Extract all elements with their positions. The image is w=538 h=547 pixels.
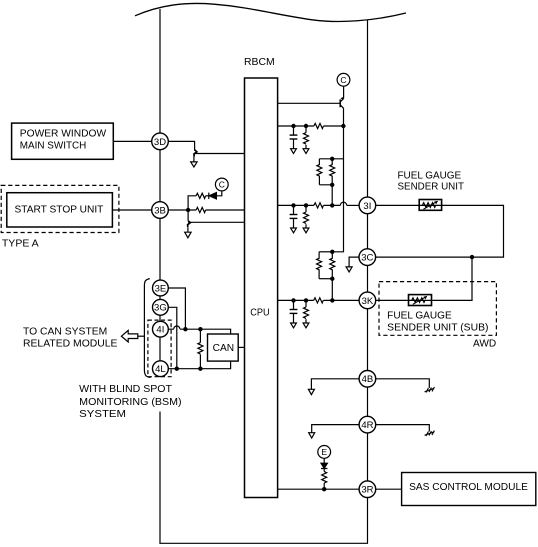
connector 3G bbox=[153, 299, 169, 315]
label: white backing for BSM text bbox=[78, 380, 184, 408]
dashed box: TYPE A bbox=[1, 185, 119, 232]
wire: 3B to junction bbox=[168, 209, 196, 211]
resistor right lower block bbox=[330, 252, 335, 279]
wire: CPU row A bbox=[278, 125, 314, 127]
connector 4I bbox=[153, 321, 169, 337]
wire: power window switch to 3D bbox=[113, 140, 151, 142]
svg-text:MONITORING (BSM): MONITORING (BSM) bbox=[79, 397, 181, 408]
svg-text:3E: 3E bbox=[155, 283, 167, 294]
svg-text:FUEL GAUGE: FUEL GAUGE bbox=[387, 310, 452, 321]
wire: 4B row left bbox=[311, 379, 359, 390]
connector 4B bbox=[359, 371, 376, 388]
resistor R-A to ground bbox=[305, 126, 307, 133]
svg-text:3B: 3B bbox=[154, 205, 166, 216]
diode on C branch bbox=[206, 195, 209, 197]
capacitor C-C bbox=[293, 300, 295, 309]
wire: CPU row 3R bbox=[278, 488, 360, 490]
wire: upper block bottom bbox=[319, 185, 332, 206]
break arrow 4B left bbox=[308, 389, 314, 394]
wire: 4B row right bbox=[376, 379, 430, 388]
fuel gauge sender unit resistor box bbox=[419, 200, 441, 211]
resistor R-C to ground bbox=[305, 300, 307, 307]
dashed box: BSM connectors bbox=[148, 320, 171, 377]
svg-text:4L: 4L bbox=[155, 364, 166, 375]
svg-text:3I: 3I bbox=[363, 201, 371, 212]
resistor on C branch bbox=[196, 193, 205, 198]
capacitor C-B bbox=[293, 205, 295, 214]
circle E bbox=[318, 446, 331, 459]
wire: 4R row left bbox=[312, 425, 360, 433]
box: CAN bbox=[208, 334, 239, 361]
svg-text:C: C bbox=[340, 75, 346, 85]
CAN terminator resistor bbox=[199, 329, 201, 342]
box: SAS CONTROL MODULE bbox=[402, 473, 536, 506]
resistor right upper block bbox=[330, 159, 335, 185]
resistor on 3B row bbox=[196, 207, 205, 212]
parallel resistor block lower: top wire bbox=[319, 251, 332, 253]
wire: right harness bus bbox=[367, 20, 369, 544]
break arrow below 3B lower branch bbox=[188, 221, 191, 227]
wire: sender loop to sub sender bbox=[432, 257, 473, 300]
connector group bracket bbox=[144, 279, 150, 378]
wire: junction up to C branch bbox=[188, 196, 196, 210]
wire: collector to circle C bbox=[343, 86, 345, 98]
wire: left harness bus upper bbox=[159, 9, 161, 377]
wire: sender loop right side bbox=[376, 205, 504, 257]
wire: 4I row to CAN bbox=[169, 328, 174, 330]
diode on E branch bbox=[321, 468, 327, 470]
junction dots bbox=[186, 208, 190, 212]
svg-text:SENDER UNIT (SUB): SENDER UNIT (SUB) bbox=[387, 323, 488, 334]
break arrow 4R left bbox=[309, 433, 315, 438]
svg-text:4R: 4R bbox=[361, 420, 373, 431]
parallel resistor block upper: top wire bbox=[319, 158, 343, 160]
connector 3B bbox=[152, 202, 169, 219]
wire: lower block to 3K row bbox=[331, 279, 333, 301]
svg-text:SAS CONTROL MODULE: SAS CONTROL MODULE bbox=[409, 482, 528, 493]
wire hop over emitter bus on 3I row bbox=[340, 202, 346, 205]
svg-text:4B: 4B bbox=[362, 374, 374, 385]
box: POWER WINDOW MAIN SWITCH bbox=[12, 123, 114, 159]
box: RBCM CPU bbox=[245, 78, 278, 498]
wire: lower 3B branch into RBCM bbox=[188, 221, 244, 223]
svg-text:CAN: CAN bbox=[213, 343, 235, 354]
connector 3I bbox=[359, 197, 376, 214]
resistor on 3I row bbox=[314, 203, 323, 208]
wire: 3G to 4L row bbox=[169, 307, 177, 368]
connector 3R bbox=[359, 481, 376, 498]
wire hop on 4I row bbox=[174, 326, 180, 329]
block arrow: to CAN system related module bbox=[121, 330, 137, 342]
svg-text:CPU: CPU bbox=[250, 308, 269, 319]
svg-text:WITH BLIND SPOT: WITH BLIND SPOT bbox=[79, 384, 172, 395]
wire: 3D branch into RBCM bbox=[195, 153, 245, 155]
box: START STOP UNIT bbox=[7, 193, 113, 227]
chassis ground 4R bbox=[425, 431, 435, 437]
connector 4R bbox=[359, 416, 376, 433]
circle C mid bbox=[215, 178, 228, 191]
wire: bottom bus bbox=[159, 542, 368, 544]
dashed box: fuel gauge sender unit (sub) AWD bbox=[379, 282, 496, 336]
svg-text:TYPE A: TYPE A bbox=[2, 238, 39, 249]
wire: 3C to break arrow bbox=[349, 257, 359, 267]
resistor R-B to ground bbox=[305, 205, 307, 212]
wire: emitter bus down to 3C block bbox=[332, 108, 343, 251]
resistor left lower block bbox=[317, 252, 322, 279]
wire: 3B junction down branch bbox=[187, 210, 189, 221]
wire: CAN to CPU stub bbox=[238, 346, 244, 348]
fuel gauge sender unit (sub) resistor box bbox=[409, 295, 432, 306]
tick: bracket to block arrow bbox=[138, 335, 145, 337]
wire: 3R to SAS control module bbox=[376, 488, 402, 490]
wire: CPU row 3I bbox=[278, 204, 314, 206]
wire: left harness bus lower bbox=[159, 412, 161, 544]
wire: diode to circle C bbox=[216, 191, 221, 196]
chassis ground 4B bbox=[425, 387, 435, 393]
svg-text:4I: 4I bbox=[156, 325, 164, 336]
svg-text:3D: 3D bbox=[154, 137, 166, 148]
resistor on row A bbox=[314, 123, 323, 128]
svg-text:FUEL GAUGE: FUEL GAUGE bbox=[398, 171, 462, 182]
connector 3C bbox=[359, 249, 376, 266]
torn-edge wavy line bbox=[135, 3, 406, 21]
wire: CPU row 3K bbox=[278, 299, 314, 301]
wire: 4L row to CAN bbox=[169, 361, 231, 369]
wire: 3D to RBCM corner bbox=[168, 141, 194, 150]
connector 3K bbox=[359, 292, 376, 309]
wire: 3I to fuel gauge sender bbox=[376, 204, 420, 206]
wire: resistor to RBCM on 3B row bbox=[206, 209, 245, 211]
svg-text:C: C bbox=[219, 180, 225, 190]
wire: start stop unit to 3B bbox=[112, 209, 151, 211]
break arrow below 3D branch bbox=[194, 150, 197, 157]
connector 3D bbox=[152, 133, 169, 150]
svg-text:MAIN SWITCH: MAIN SWITCH bbox=[20, 141, 87, 152]
svg-text:AWD: AWD bbox=[473, 339, 496, 350]
resistor on E branch bbox=[323, 483, 325, 489]
svg-text:START STOP UNIT: START STOP UNIT bbox=[15, 205, 104, 216]
connector 4L bbox=[153, 361, 169, 377]
wire: sub sender to 3K bbox=[376, 299, 409, 301]
resistor left upper block bbox=[317, 159, 322, 185]
connector 3E bbox=[153, 280, 169, 296]
svg-text:TO CAN SYSTEM: TO CAN SYSTEM bbox=[23, 326, 107, 337]
svg-text:3K: 3K bbox=[362, 296, 374, 307]
break arrow left of 3C bbox=[346, 267, 352, 272]
svg-text:3G: 3G bbox=[154, 303, 167, 314]
svg-text:RBCM: RBCM bbox=[244, 57, 275, 68]
svg-text:POWER WINDOW: POWER WINDOW bbox=[20, 128, 107, 139]
capacitor C-A bbox=[293, 126, 295, 135]
svg-text:3C: 3C bbox=[361, 253, 373, 264]
svg-text:SENDER UNIT: SENDER UNIT bbox=[398, 182, 465, 193]
svg-text:SYSTEM: SYSTEM bbox=[79, 409, 126, 420]
svg-text:3R: 3R bbox=[361, 485, 373, 496]
circle C top bbox=[337, 73, 350, 86]
svg-text:E: E bbox=[321, 447, 327, 457]
svg-text:RELATED MODULE: RELATED MODULE bbox=[23, 339, 118, 350]
wire: 3E to 4I row bbox=[169, 288, 186, 329]
transistor Q1 bbox=[339, 99, 341, 107]
wire: 4R row right bbox=[376, 425, 430, 432]
transistor Q1 base wire bbox=[278, 102, 341, 104]
wire: lower block bottom bbox=[319, 278, 332, 280]
resistor on 3K row bbox=[314, 298, 323, 303]
